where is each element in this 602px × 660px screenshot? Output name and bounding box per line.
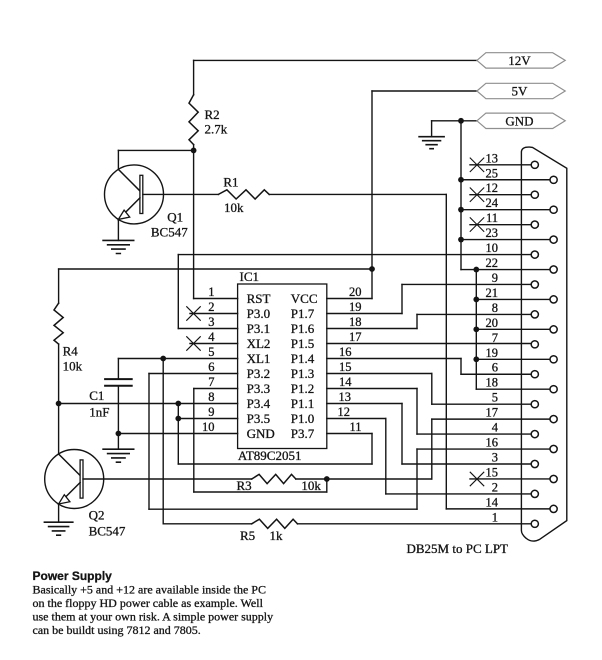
svg-text:21: 21	[486, 286, 499, 300]
no-connect X row 15	[470, 472, 484, 486]
svg-text:P1.7: P1.7	[291, 306, 315, 321]
no-connect X row 12	[470, 188, 484, 202]
connector pin 16	[550, 445, 557, 452]
wire R4 top	[58, 269, 60, 303]
svg-text:24: 24	[486, 196, 499, 210]
svg-text:P3.0: P3.0	[247, 306, 270, 321]
node bus row 25	[458, 177, 464, 183]
connector pin 13	[531, 161, 538, 168]
svg-text:AT89C2051: AT89C2051	[238, 448, 302, 463]
svg-text:11: 11	[486, 211, 498, 225]
wire 5V to R4	[59, 268, 372, 270]
svg-text:can be buildt using 7812 and 7: can be buildt using 7812 and 7805.	[33, 623, 201, 637]
connector pin 17	[550, 416, 557, 423]
wire P3.7 pin 11	[327, 433, 372, 435]
wire P3.4-P3.5 vertical	[177, 404, 179, 465]
svg-text:4: 4	[208, 330, 215, 344]
svg-text:17: 17	[349, 330, 362, 344]
wire R2 bottom to RST	[193, 145, 195, 299]
node GND bus top	[458, 118, 464, 124]
svg-text:Q2: Q2	[89, 507, 105, 522]
node bus2 row 21	[473, 297, 479, 303]
svg-text:16: 16	[339, 345, 352, 359]
wire row 21	[476, 298, 550, 300]
resistor R5	[252, 519, 298, 528]
wire R1 to pin14 column	[269, 193, 446, 195]
svg-text:R2: R2	[205, 107, 220, 122]
wire 12V rail	[194, 59, 477, 61]
connector pin 5	[531, 401, 538, 408]
wire P3.7 horizontal	[178, 463, 372, 465]
transistor Q1	[105, 165, 164, 224]
wire C1 bottom	[117, 386, 119, 450]
svg-text:R1: R1	[223, 175, 238, 190]
wire pin14 column vertical	[445, 194, 447, 508]
svg-text:2: 2	[208, 300, 214, 314]
svg-text:P1.3: P1.3	[291, 366, 314, 381]
wire P3.2 horizontal	[149, 508, 417, 510]
flag 5V	[477, 83, 565, 98]
svg-text:15: 15	[486, 465, 499, 479]
node bus2 row 20	[473, 326, 479, 332]
wire P1.1 pin 13	[327, 403, 402, 405]
svg-text:7: 7	[208, 375, 214, 389]
ground near GND flag	[419, 137, 444, 149]
flag GND	[477, 113, 565, 128]
node XL1 junction	[160, 356, 166, 362]
ground Q2	[44, 522, 72, 535]
svg-text:12V: 12V	[508, 53, 531, 68]
svg-text:9: 9	[492, 271, 498, 285]
transistor Q2	[45, 450, 104, 509]
svg-text:P1.1: P1.1	[291, 396, 314, 411]
svg-text:20: 20	[486, 316, 499, 330]
wire pin17 vertical	[431, 419, 433, 479]
svg-text:18: 18	[349, 315, 362, 329]
wire row 8	[417, 313, 531, 315]
svg-text:7: 7	[492, 331, 498, 345]
connector DB25M outline	[521, 147, 566, 541]
wire P3.3 vertical	[193, 389, 195, 493]
wire row 18	[476, 388, 550, 390]
node bus row 23	[458, 237, 464, 243]
connector pin 9	[531, 281, 538, 288]
svg-text:8: 8	[208, 390, 214, 404]
svg-text:Q1: Q1	[167, 210, 183, 225]
wire row 5	[432, 403, 531, 405]
svg-text:15: 15	[339, 360, 352, 374]
ground C1	[103, 449, 134, 462]
svg-text:18: 18	[486, 376, 499, 390]
svg-text:R5: R5	[240, 528, 255, 543]
wire Q1 collector to node	[118, 149, 193, 151]
wire pin16 vertical	[416, 449, 418, 509]
wire row 1	[298, 523, 532, 525]
node C1 ground junction	[116, 431, 122, 437]
wire row 24	[461, 209, 550, 211]
svg-text:8: 8	[492, 301, 498, 315]
wire Q1 emitter	[117, 219, 119, 240]
connector pin 24	[550, 206, 557, 213]
wire P3.5 pin 9	[178, 418, 237, 420]
wire P1.3 pin 15	[327, 373, 432, 375]
wire XL1 down to R5	[162, 359, 164, 524]
wire row 10	[178, 254, 531, 256]
svg-text:IC1: IC1	[240, 269, 260, 284]
wire P3.3 pin 7	[194, 388, 238, 390]
wire P3.2 pin 6	[149, 373, 238, 375]
svg-text:14: 14	[339, 375, 352, 389]
svg-text:22: 22	[486, 256, 499, 270]
svg-text:2.7k: 2.7k	[205, 122, 228, 137]
wire GND bus 2	[475, 270, 477, 390]
node P3.5 junction	[175, 416, 181, 422]
svg-text:P1.0: P1.0	[291, 411, 314, 426]
node P3.4 junction	[175, 401, 181, 407]
svg-text:23: 23	[486, 226, 499, 240]
svg-text:13: 13	[339, 390, 352, 404]
wire row 11 stub	[470, 224, 531, 226]
svg-text:P1.6: P1.6	[291, 321, 315, 336]
svg-text:GND: GND	[247, 426, 275, 441]
wire Q1 collector drop	[117, 150, 119, 169]
wire P3.1 pin 3	[178, 328, 237, 330]
wire GND drop	[431, 121, 433, 137]
svg-text:19: 19	[486, 346, 499, 360]
connector pin 19	[550, 356, 557, 363]
wire row 14	[446, 508, 550, 510]
resistor R3	[252, 474, 296, 483]
svg-text:P3.3: P3.3	[247, 381, 270, 396]
wire row 15 stub	[470, 478, 550, 480]
svg-text:6: 6	[492, 361, 498, 375]
capacitor C1	[105, 378, 132, 380]
connector pin 21	[550, 296, 557, 303]
svg-text:17: 17	[486, 406, 499, 420]
svg-text:12: 12	[338, 405, 351, 419]
svg-text:10: 10	[486, 241, 499, 255]
node Q1 collector junction	[191, 148, 197, 154]
wire Q1 base	[143, 193, 219, 195]
no-connect X pin 4	[187, 337, 201, 351]
svg-text:12: 12	[486, 181, 499, 195]
wire Q2 emitter	[58, 504, 60, 522]
connector pin 8	[531, 311, 538, 318]
wire P1.5 row 7	[327, 343, 531, 345]
connector pin 12	[531, 191, 538, 198]
wire P1.7 pin 19	[327, 313, 402, 315]
node 5V-R4 junction	[369, 266, 375, 272]
svg-text:10: 10	[202, 420, 215, 434]
connector pin 1	[531, 520, 538, 527]
wire row 16	[417, 448, 550, 450]
node R4 bottom junction	[56, 401, 62, 407]
svg-text:P3.7: P3.7	[291, 426, 315, 441]
svg-text:25: 25	[486, 166, 499, 180]
wire row 3	[402, 463, 531, 465]
connector pin 25	[550, 176, 557, 183]
wire P1.3 vertical	[431, 374, 433, 405]
svg-text:3: 3	[208, 315, 214, 329]
wire P3.0 stub	[190, 313, 238, 315]
wire P1.1 vertical	[401, 404, 403, 465]
svg-text:19: 19	[349, 300, 362, 314]
svg-text:on the floppy HD power cable a: on the floppy HD power cable as example.…	[33, 596, 264, 610]
node bus row 24	[458, 207, 464, 213]
svg-text:5V: 5V	[512, 84, 529, 99]
svg-text:11: 11	[350, 420, 362, 434]
wire P3.3 horizontal	[194, 491, 327, 493]
svg-text:P3.5: P3.5	[247, 411, 270, 426]
wire R4 bottom	[58, 344, 60, 403]
wire C1 top to XL1	[117, 359, 119, 380]
ground Q1	[103, 240, 134, 253]
connector pin 23	[550, 236, 557, 243]
no-connect X pin 2	[187, 307, 201, 321]
wire XL1 to C1	[118, 358, 237, 360]
wire P1.2 pin 14	[327, 388, 417, 390]
svg-text:P3.1: P3.1	[247, 321, 270, 336]
resistor R1	[218, 190, 269, 199]
svg-text:P1.4: P1.4	[291, 351, 315, 366]
svg-text:9: 9	[208, 405, 214, 419]
wire P1.0 pin 12	[327, 418, 386, 420]
wire P1.4 pin 16	[327, 358, 461, 360]
svg-text:20: 20	[349, 285, 362, 299]
svg-text:6: 6	[208, 360, 214, 374]
wire row 9	[402, 283, 531, 285]
svg-text:1nF: 1nF	[89, 404, 109, 419]
connector pin 2	[531, 490, 538, 497]
node R3 junction	[324, 476, 330, 482]
wire GND pin 10	[118, 433, 237, 435]
connector pin 6	[531, 371, 538, 378]
node bus2 top	[473, 267, 479, 273]
connector pin 14	[550, 505, 557, 512]
wire row 23	[461, 239, 550, 241]
connector pin 7	[531, 341, 538, 348]
connector pin 4	[531, 431, 538, 438]
svg-text:4: 4	[492, 421, 499, 435]
wire P1.6 vertical	[416, 314, 418, 328]
flag 12V	[477, 53, 565, 68]
wire row 6	[461, 373, 531, 375]
svg-text:XL2: XL2	[247, 336, 271, 351]
connector pin 20	[550, 326, 557, 333]
svg-text:R4: R4	[63, 344, 79, 359]
svg-text:VCC: VCC	[291, 291, 318, 306]
no-connect X row 13	[470, 158, 484, 172]
wire row 13 stub	[470, 164, 531, 166]
svg-text:1: 1	[492, 510, 498, 524]
wire P1.4 jog	[460, 359, 462, 375]
wire Q2 collector drop	[58, 404, 60, 455]
svg-text:5: 5	[492, 391, 498, 405]
svg-text:Power Supply: Power Supply	[33, 569, 113, 583]
wire R4 to P3.4 pin 8	[59, 403, 238, 405]
wire P3.1 vertical	[177, 255, 179, 329]
svg-text:16: 16	[486, 436, 499, 450]
resistor R4	[54, 303, 63, 344]
svg-text:P1.5: P1.5	[291, 336, 314, 351]
wire row 12 stub	[470, 194, 531, 196]
svg-text:1k: 1k	[270, 528, 284, 543]
wire R5 left	[163, 523, 252, 525]
wire XL2 stub	[190, 343, 238, 345]
svg-text:P1.2: P1.2	[291, 381, 314, 396]
wire row 19	[476, 358, 550, 360]
wire P1.7 vertical	[401, 284, 403, 313]
wire row 20	[476, 328, 550, 330]
svg-text:13: 13	[486, 151, 499, 165]
svg-text:10k: 10k	[301, 478, 321, 493]
svg-text:3: 3	[492, 451, 498, 465]
wire row 22	[461, 269, 550, 271]
wire RST pin 1	[194, 298, 238, 300]
svg-text:BC547: BC547	[151, 225, 188, 240]
node bus2 row 19	[473, 356, 479, 362]
wire R2 top	[193, 60, 195, 94]
connector pin 10	[531, 251, 538, 258]
svg-text:14: 14	[486, 495, 499, 509]
wire GND bus	[460, 121, 462, 270]
op-amp IC1 outline	[238, 284, 327, 449]
wire 5V from flag	[372, 90, 477, 92]
svg-text:1: 1	[208, 285, 214, 299]
connector pin 3	[531, 460, 538, 467]
wire row 17	[432, 418, 550, 420]
wire P3.7 vertical	[371, 434, 373, 465]
svg-text:5: 5	[208, 345, 214, 359]
wire row 4	[417, 433, 531, 435]
svg-text:10k: 10k	[63, 358, 83, 373]
svg-text:10k: 10k	[224, 200, 244, 215]
svg-text:R3: R3	[237, 478, 252, 493]
wire P1.0 vertical	[385, 419, 387, 494]
connector pin 22	[550, 266, 557, 273]
svg-text:P3.4: P3.4	[247, 396, 271, 411]
svg-text:Basically +5 and +12 are avail: Basically +5 and +12 are available insid…	[33, 582, 266, 596]
svg-text:C1: C1	[89, 388, 104, 403]
wire GND flag lead	[432, 120, 477, 122]
wire 5V vertical to VCC	[371, 91, 373, 299]
connector pin 11	[531, 221, 538, 228]
resistor R2	[189, 95, 198, 145]
svg-text:2: 2	[492, 480, 498, 494]
svg-text:use them at your own risk. A s: use them at your own risk. A simple powe…	[33, 609, 274, 623]
wire P3.2 vertical	[148, 374, 150, 510]
wire VCC pin 20	[327, 298, 372, 300]
connector pin 18	[550, 386, 557, 393]
svg-text:BC547: BC547	[89, 524, 126, 539]
svg-text:DB25M to PC LPT: DB25M to PC LPT	[407, 541, 509, 556]
no-connect X row 11	[470, 218, 484, 232]
wire Q2 base	[83, 478, 252, 480]
wire row 25	[461, 179, 550, 181]
svg-text:RST: RST	[247, 291, 271, 306]
wire R3 right	[296, 478, 432, 480]
connector pin 15	[550, 475, 557, 482]
svg-text:XL1: XL1	[247, 351, 271, 366]
wire R3 riser	[326, 479, 328, 492]
svg-text:P3.2: P3.2	[247, 366, 270, 381]
wire P1.6 pin 18	[327, 328, 417, 330]
wire row 2	[386, 493, 531, 495]
svg-text:GND: GND	[505, 113, 533, 128]
wire P1.2 vertical	[416, 389, 418, 435]
